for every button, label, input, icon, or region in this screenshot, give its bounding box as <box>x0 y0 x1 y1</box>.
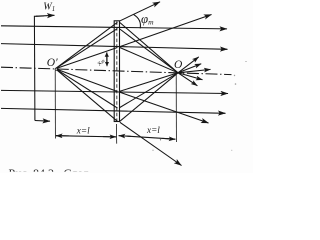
ray U1: O' to grating top <box>55 22 117 68</box>
ray D2: O' to grating lower <box>55 69 117 108</box>
plane-wave ray R3 <box>1 90 228 93</box>
svg-text:O: O <box>174 59 183 71</box>
ray D3: O' to grating bottom <box>55 69 117 122</box>
ray D1: O' to grating mid-lower <box>55 69 117 92</box>
fan ray F5 beyond focus O <box>178 73 197 86</box>
ray U3: O' to grating mid-upper <box>55 48 117 69</box>
svg-text:x=l: x=l <box>76 126 90 136</box>
fan ray F4 beyond focus O <box>178 73 203 80</box>
plane-wave ray R2 <box>1 44 228 50</box>
phi_m angle arc <box>134 15 141 29</box>
plane-wave ray R4 (bottom horizontal) <box>1 108 226 113</box>
point O (focus dot) <box>177 72 179 74</box>
diverging ray J4 (continuation of D3) <box>120 122 182 165</box>
optical axis (dash-dot) <box>1 67 232 74</box>
svg-text:x=l: x=l <box>146 125 160 135</box>
grating / hologram plate outline <box>114 21 119 122</box>
converging ray C5 <box>120 73 178 108</box>
W1 top arrow <box>36 14 55 17</box>
point O' (focus dot) <box>55 68 57 70</box>
fan ray F2 beyond focus O <box>178 64 201 73</box>
speck below right dim <box>152 150 153 151</box>
left dim arrowhead left <box>56 135 69 137</box>
converging ray C4 <box>120 73 178 92</box>
ray U2: O' to grating upper <box>55 29 117 69</box>
dimension line x=l (left) <box>56 136 116 137</box>
converging ray C3 <box>120 48 178 73</box>
fan ray F3 beyond focus O <box>178 69 211 72</box>
extension line below grating <box>115 124 117 144</box>
W1 bottom arrow <box>35 120 50 123</box>
speck bottom right <box>231 150 232 151</box>
right dim arrowhead right <box>163 137 176 140</box>
fan ray F1 beyond focus O <box>178 57 199 73</box>
dimension line x=l (right) <box>119 136 176 140</box>
speck right of O fan <box>246 61 247 62</box>
extension line below O' <box>54 71 56 139</box>
grating centerline (dashed) <box>116 22 118 122</box>
converging ray C1: grating top to O <box>120 23 178 73</box>
speck near right dimension <box>160 139 161 140</box>
zone radius measure (double arrow) <box>106 53 108 66</box>
extension line below O <box>175 75 177 143</box>
diffracted ray J1 at angle phi_m from grating top <box>119 2 160 22</box>
speck below axis tail <box>235 83 237 85</box>
right dim arrowhead left <box>119 135 131 138</box>
wavefront W1 vertical line <box>34 16 44 121</box>
diverging ray J3 (continuation of D1) <box>120 92 209 123</box>
plane-wave ray R1 (top horizontal) <box>1 26 227 29</box>
speck on axis tail <box>234 75 235 76</box>
converging ray C6: grating bottom to O <box>120 73 178 122</box>
svg-text:O′: O′ <box>47 57 58 69</box>
left dim arrowhead right <box>103 136 116 138</box>
diverging ray J2 (continuation of U3) <box>120 15 212 47</box>
converging ray C2 <box>120 29 178 73</box>
